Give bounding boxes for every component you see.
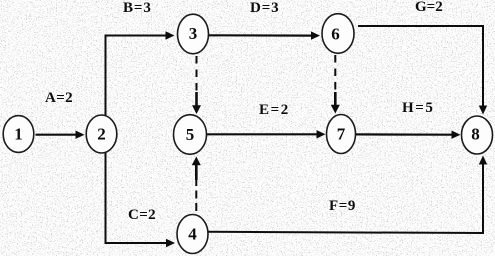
node 3 [178,14,209,54]
wire G arrow 6-8 [358,26,487,115]
label F=9 [329,198,356,214]
svg-text:H=5: H=5 [402,100,435,116]
svg-text:B=3: B=3 [123,0,152,16]
label E=2 [259,102,290,118]
wire D arrow 3-6 [209,31,320,39]
svg-text:4: 4 [188,225,197,244]
svg-text:2: 2 [97,125,106,144]
wire dashed arrow 6-7 [331,55,340,114]
svg-text:F=9: F=9 [329,198,356,214]
svg-text:A=2: A=2 [45,90,73,106]
svg-text:G=2: G=2 [415,0,443,15]
svg-text:5: 5 [186,125,195,144]
node 7 [327,115,356,154]
label B=3 [123,0,152,16]
svg-text:1: 1 [14,125,23,144]
node 4 [177,215,208,254]
wire B arrow 2-3 [106,31,175,116]
label H=5 [402,100,435,116]
node 8 [462,116,493,154]
label C=2 [128,207,156,223]
wire E arrow 5-7 [207,130,326,138]
wire dashed arrow 3-5 [192,56,201,114]
svg-text:3: 3 [189,24,198,43]
svg-text:7: 7 [337,125,346,144]
wire F arrow 4-8 [208,156,487,234]
node 2 [86,115,117,153]
wire dashed arrow 4-5 [192,157,201,212]
node 5 [174,115,207,155]
svg-text:8: 8 [471,125,480,144]
label G=2 [415,0,443,15]
label A=2 [45,90,73,106]
node 1 [3,116,34,153]
node 6 [322,14,354,54]
wire A arrow 1-2 [36,131,85,139]
svg-text:6: 6 [331,25,340,44]
wire H arrow 7-8 [356,131,461,139]
svg-text:E=2: E=2 [259,102,290,118]
wire C arrow 2-4 [106,153,176,248]
svg-text:C=2: C=2 [128,207,156,223]
svg-text:D=3: D=3 [250,0,280,16]
label D=3 [250,0,280,16]
